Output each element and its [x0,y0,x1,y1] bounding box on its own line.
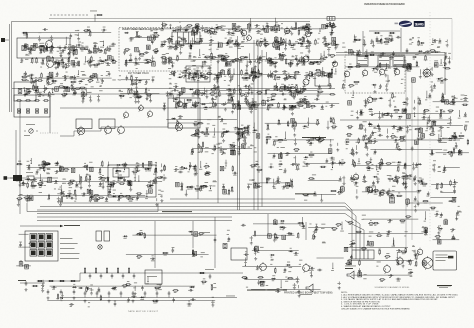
label [258,102,261,105]
diode D50 [332,62,337,64]
diode D10 [60,62,65,64]
resistor R145 [263,43,269,45]
label [213,98,216,101]
wire [385,68,387,71]
resistor R245 [423,109,429,111]
label [30,81,32,84]
label [228,95,232,98]
label [299,98,301,101]
label [176,44,180,47]
ground [24,93,27,96]
label [64,79,66,82]
label [260,37,262,40]
wire [275,83,277,88]
capacitor C213 [429,153,434,155]
wire [82,94,84,100]
diode D37 [161,44,166,46]
label [320,108,324,111]
label [152,60,155,63]
label [66,90,68,93]
label [302,90,305,93]
wire [97,74,99,80]
label [431,130,435,133]
resistor R237 [371,98,377,100]
label [187,101,191,104]
label [57,61,59,64]
label [302,102,304,105]
resistor R130 [227,69,229,75]
label [267,22,269,25]
diode D67 [437,78,442,80]
label [305,76,308,79]
wire [354,35,356,40]
diode D15 [34,90,39,92]
label [54,63,56,66]
label [266,22,268,25]
ground [55,66,58,69]
label [57,65,60,68]
capacitor C87 [213,87,218,89]
diode D7 [63,88,68,90]
label [381,116,384,119]
label [130,74,132,77]
capacitor C63 [185,38,187,43]
label [289,108,293,111]
diode D22 [154,51,159,53]
label [100,50,103,53]
capacitor C39 [61,57,63,62]
label [327,46,331,49]
resistor R56 [119,95,125,97]
label [203,63,206,66]
diode D74 [412,56,417,58]
label [24,42,26,45]
label [235,60,239,63]
label [369,142,372,145]
label [304,102,306,105]
label [82,78,85,81]
label [184,71,186,74]
resistor R218 [425,55,427,61]
label [70,78,73,81]
resistor R116 [265,89,267,95]
label [85,31,88,34]
label [201,94,203,97]
label [375,66,378,69]
label [302,90,305,93]
diode D60 [172,30,177,32]
label [174,48,176,51]
node N54 [441,63,442,64]
label [73,93,75,96]
resistor R203 [297,27,303,29]
label [295,83,297,86]
capacitor C67 [330,105,335,107]
label [356,111,358,114]
node N43 [275,25,276,26]
label [222,54,224,57]
label [205,26,208,29]
label [73,78,77,81]
resistor R68 [231,28,237,30]
label [312,102,315,105]
node N21 [192,43,193,44]
label [418,103,422,106]
label [106,64,110,67]
label [112,62,116,65]
resistor R7 [79,87,85,89]
label [106,49,110,52]
label [304,34,307,37]
label [293,44,296,47]
inductor L54 [349,49,353,53]
label [179,45,182,48]
resistor R111 [280,54,286,56]
dashed vertical boundary right [429,12,431,242]
capacitor C168 [255,25,260,27]
resistor R45 [32,84,34,90]
ground [264,44,267,47]
resistor R51 [136,96,142,98]
wire [323,51,325,56]
diode D25 [304,26,309,28]
capacitor C209 [369,114,374,116]
label [227,43,229,46]
label [289,93,291,96]
label [171,62,175,65]
label [91,85,94,88]
label [459,148,461,151]
capacitor C62 [282,71,287,73]
label [72,83,75,86]
resistor R28 [48,91,50,97]
ground [404,60,407,63]
label [227,33,231,36]
label [384,69,387,72]
label [181,39,184,42]
label [46,78,48,81]
ground [330,33,333,36]
capacitor C138 [162,41,167,43]
ground [38,38,41,41]
resistor R41 [78,60,80,66]
label [221,24,224,27]
resistor R185 [165,58,167,64]
label [254,106,257,109]
svg-text:FM/AM 8-TRACK STEREO AUTO RADI: FM/AM 8-TRACK STEREO AUTO RADIO RE-8000 [364,2,406,6]
label [75,57,78,60]
capacitor C12 [53,62,58,64]
resistor R65 [251,72,257,74]
resistor R187 [294,71,300,73]
ground [366,153,369,156]
label [363,39,365,42]
wire [24,90,26,97]
label [313,73,317,76]
capacitor C37 [47,76,49,81]
label [221,73,224,76]
capacitor C14 [62,75,67,77]
label [453,136,456,139]
wire [150,95,152,100]
wire [254,60,256,63]
label [255,105,258,108]
resistor R82 [220,58,226,60]
label [34,46,36,49]
resistor R22 [21,79,27,81]
resistor R125 [239,94,245,96]
label [291,83,293,86]
node N34 [198,78,199,79]
label [176,54,178,57]
resistor R27 [58,86,64,88]
resistor R160 [223,56,229,58]
label [48,95,52,98]
capacitor C99 [201,39,203,44]
label [417,137,421,140]
resistor R69 [303,37,305,43]
wire [43,85,45,92]
label [325,45,327,48]
label [443,61,446,64]
wire [171,39,173,44]
node N47 [266,58,267,59]
wire [130,36,159,38]
capacitor C85 [263,26,265,31]
label [433,87,436,90]
capacitor C38 [46,46,48,51]
inductor L14 [152,62,156,66]
label [79,82,81,85]
wire [118,79,150,81]
label [282,51,284,54]
wire [444,59,446,66]
wire [82,92,84,99]
label [82,73,85,76]
label [181,91,183,94]
resistor R230 [347,66,353,68]
label [75,29,79,32]
resistor R224 [418,40,420,46]
capacitor C129 [244,85,249,87]
label [289,64,291,67]
label [300,52,303,55]
resistor R66 [271,72,273,78]
resistor R121 [241,28,243,34]
ground [89,99,92,102]
resistor R112 [278,89,284,91]
label [163,53,166,56]
label [405,98,408,101]
capacitor C93 [282,106,287,108]
label [227,89,230,92]
capacitor C25 [76,44,81,46]
resistor R223 [416,61,418,67]
ground [203,92,206,95]
label [109,45,112,48]
label [269,64,272,67]
resistor R191 [233,88,235,94]
label [246,56,248,59]
label [318,32,320,35]
wire [331,26,333,31]
label [255,104,258,107]
label [380,39,382,42]
label [181,71,184,74]
wire [232,99,234,104]
resistor R183 [313,61,319,63]
resistor R80 [276,44,282,46]
diode D59 [309,61,314,63]
capacitor C110 [212,97,214,102]
label [302,29,305,32]
inductor L6 [24,45,28,49]
label [221,29,225,32]
ground [193,78,196,81]
wire frame top [12,21,311,23]
label [185,25,187,28]
label [423,52,425,55]
resistor R184 [280,37,282,43]
ground [183,105,186,108]
label [291,107,293,110]
label [330,33,332,36]
label [152,65,154,68]
label [241,95,243,98]
label [303,97,305,100]
wire [366,146,368,151]
label [241,45,244,48]
label [127,87,130,90]
label [91,63,94,66]
label [41,63,45,66]
label [184,71,188,74]
label [215,28,218,31]
capacitor C91 [327,73,329,78]
resistor R124 [285,30,291,32]
wire [146,94,148,100]
label [288,72,290,75]
label [134,96,136,99]
label [398,145,400,148]
resistor R226 [353,81,359,83]
label [275,84,277,87]
ground [125,63,128,66]
capacitor C119 [209,39,214,41]
resistor R146 [173,70,175,76]
ground [170,45,173,48]
diode D21 [153,32,158,34]
label [72,89,75,92]
label [32,88,35,91]
label [191,106,193,109]
label [300,101,303,104]
diode D56 [335,44,340,46]
label [216,77,218,80]
capacitor C70 [228,98,230,103]
label [64,45,66,48]
label [300,61,303,64]
label [283,103,285,106]
wire [173,95,175,101]
wire [389,99,391,105]
wire [39,36,41,38]
resistor R58 [153,50,159,52]
label [99,89,103,92]
label [373,131,376,134]
label [163,63,166,66]
capacitor C102 [299,100,301,105]
capacitor C130 [252,99,254,104]
wire [172,61,174,67]
diode D39 [227,93,232,95]
label [350,86,352,89]
ground [97,99,100,102]
label [455,142,457,145]
label [358,53,362,56]
node N28 [309,78,310,79]
capacitor C43 [60,50,65,52]
label [229,46,233,49]
label [354,35,357,38]
capacitor C44 [23,46,28,48]
wire [239,101,241,108]
label [252,78,254,81]
label [346,147,348,150]
label [238,84,240,87]
node N7 [97,80,98,81]
label [150,34,152,37]
ground [82,97,85,100]
label [381,54,384,57]
wire [291,106,293,110]
node N18 [258,70,259,71]
label [300,102,304,105]
label [369,110,371,113]
wire [168,57,170,64]
resistor R167 [253,74,255,80]
label [184,104,187,107]
node N20 [250,25,251,26]
label [57,65,60,68]
label [178,105,180,108]
resistor R235 [368,137,370,143]
resistor R_sb1 [25,100,31,102]
label [212,105,216,108]
inductor L44 [168,58,172,62]
label [99,56,101,59]
node N30 [246,73,247,74]
label [314,43,317,46]
label [204,108,207,111]
wire [431,85,433,90]
label [324,71,326,74]
label [42,58,45,61]
capacitor C196 [433,40,438,42]
diode D54 [297,42,302,44]
label [431,51,434,54]
inductor L56 [434,63,438,67]
label [225,65,228,68]
diode D4 [24,93,29,95]
label [422,118,425,121]
wire [357,110,359,114]
label [310,75,314,78]
label [403,66,406,69]
label [197,79,200,82]
wire [426,122,428,129]
label [154,51,157,54]
